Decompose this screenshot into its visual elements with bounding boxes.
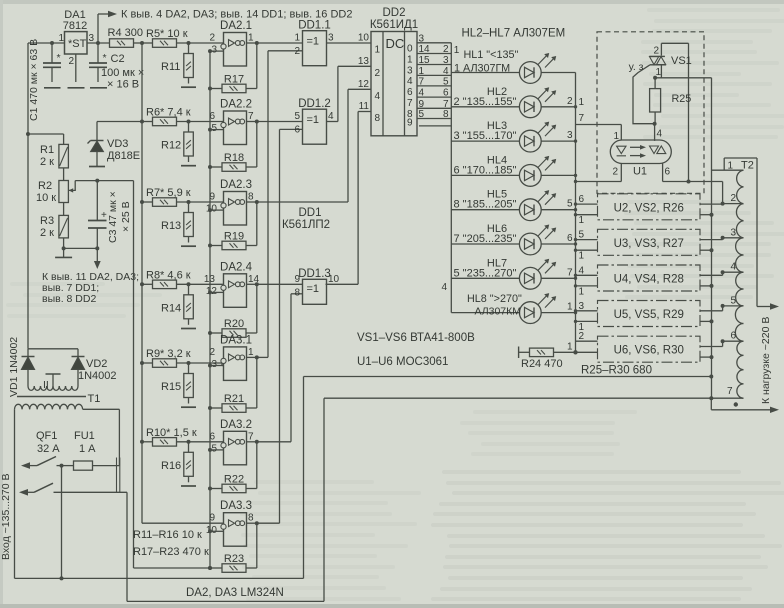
node cathode 7 <box>574 277 577 280</box>
wire DD2 pin 14 <box>417 53 451 55</box>
op-amp DA2.3 <box>224 192 247 226</box>
svg-text:5: 5 <box>211 443 217 454</box>
resistor R5 <box>142 42 153 44</box>
svg-text:DA2, DA3 LM324N: DA2, DA3 LM324N <box>186 587 284 599</box>
svg-text:1: 1 <box>454 45 460 56</box>
wire pin2 U1 <box>620 164 622 182</box>
node R25 bottom <box>653 122 657 126</box>
arrows HL4 <box>538 157 548 167</box>
node in b U5 <box>574 320 577 323</box>
svg-text:R21: R21 <box>224 393 244 405</box>
LED HL3 <box>519 130 541 152</box>
svg-text:5: 5 <box>443 76 449 87</box>
wire row HL8 <box>451 312 575 314</box>
svg-text:4: 4 <box>419 88 425 99</box>
wire DA2.1 inv input <box>210 50 224 52</box>
wire DA3.1 out <box>247 356 257 358</box>
svg-text:R25: R25 <box>672 93 692 105</box>
svg-text:R9* 3,2 к: R9* 3,2 к <box>146 348 191 360</box>
svg-text:К561ЛП2: К561ЛП2 <box>282 219 330 231</box>
optocoupler U1 <box>610 140 671 164</box>
wire feedback DA2.4 <box>256 284 258 333</box>
resistor R3 <box>59 215 69 238</box>
ground VD3 <box>89 166 105 168</box>
LED HL2 <box>519 96 541 118</box>
wire to R1 <box>28 133 64 135</box>
svg-text:DA3.2: DA3.2 <box>220 419 252 431</box>
node DA2.2 out <box>255 120 259 124</box>
svg-text:3 "155...170": 3 "155...170" <box>454 130 517 142</box>
svg-text:4: 4 <box>407 76 413 87</box>
svg-text:8 "185...205": 8 "185...205" <box>454 199 517 211</box>
ground C2 <box>90 87 107 89</box>
svg-text:3: 3 <box>443 55 449 66</box>
svg-text:× 25 В: × 25 В <box>120 201 132 232</box>
wire primary left <box>14 409 16 578</box>
svg-text:R7* 5,9 к: R7* 5,9 к <box>146 187 191 199</box>
node ladder bus row 3 <box>140 200 144 204</box>
tap 1 T2 <box>723 158 725 170</box>
LED HL8 <box>519 302 541 324</box>
node R23 left <box>208 566 212 570</box>
wire row HL7 <box>451 277 575 279</box>
svg-text:DD1.1: DD1.1 <box>298 20 331 32</box>
svg-text:8: 8 <box>248 192 254 203</box>
wire W2 neutral <box>127 600 324 602</box>
node in a U2 <box>574 202 577 205</box>
node ladder bus row 2 <box>140 120 144 124</box>
wire DA3.1 out riser <box>257 356 268 358</box>
diode VD2 <box>77 349 79 357</box>
wire DA2.4 inv input <box>210 291 224 293</box>
wire U4 out common <box>700 285 712 287</box>
svg-text:6: 6 <box>443 88 449 99</box>
wire U5 out tap <box>700 310 723 312</box>
svg-text:2: 2 <box>613 167 619 178</box>
node cathode 5 <box>574 208 577 211</box>
svg-text:3: 3 <box>419 33 425 44</box>
svg-text:2: 2 <box>294 46 300 57</box>
svg-text:7 "205...235": 7 "205...235" <box>454 233 517 245</box>
wire feedback DA2.3 <box>256 202 258 246</box>
arrow to supply pins <box>98 13 108 15</box>
wire U6 out common <box>700 356 712 358</box>
node common U5 <box>710 319 714 323</box>
wire DA2.3 out to DD2 <box>257 201 348 203</box>
diode VD1 <box>27 349 29 357</box>
LED HL1 <box>519 62 541 84</box>
resistor R15 <box>188 363 190 374</box>
resistor R22 <box>210 488 222 490</box>
arrows HL1 <box>538 55 548 65</box>
resistor R24 <box>518 347 520 359</box>
node ladder bus row 6 <box>140 440 144 444</box>
wire U3 out tap <box>700 239 723 241</box>
resistor R25 <box>654 78 656 89</box>
arrows HL8 <box>538 295 548 305</box>
node R9/R15 <box>187 361 191 365</box>
wire U2 in b <box>576 214 598 216</box>
svg-text:R1: R1 <box>40 144 54 156</box>
svg-text:1: 1 <box>248 347 254 358</box>
svg-text:1: 1 <box>59 33 65 44</box>
tap 2 T2 <box>723 203 744 205</box>
svg-text:DD1: DD1 <box>298 207 321 219</box>
resistor R13 <box>188 202 190 213</box>
svg-text:R12: R12 <box>161 140 181 152</box>
svg-text:5: 5 <box>567 199 573 210</box>
wire row HL6 <box>451 243 575 245</box>
wire DA2.1 out to DD1.1 <box>257 42 303 44</box>
node in a U3 <box>574 238 577 241</box>
svg-text:DC: DC <box>386 36 405 51</box>
svg-text:R19: R19 <box>224 231 244 243</box>
node R21 left <box>208 406 212 410</box>
svg-text:R10* 1,5 к: R10* 1,5 к <box>146 427 197 439</box>
node DA2.4 out <box>255 282 259 286</box>
svg-text:2: 2 <box>731 193 737 204</box>
svg-text:5: 5 <box>211 123 217 134</box>
wire LED bus <box>450 43 452 313</box>
svg-text:12: 12 <box>358 79 370 90</box>
block U3 <box>598 229 701 255</box>
wire riser A <box>303 377 305 579</box>
svg-text:6: 6 <box>294 125 300 136</box>
gate VS1 <box>633 65 655 124</box>
wire DA2.4 out to DD1.3 <box>257 283 303 285</box>
block U6 <box>598 336 701 362</box>
svg-text:R3: R3 <box>40 215 54 227</box>
wire U5 in b <box>576 320 598 322</box>
svg-text:С1 470 мк × 63 В: С1 470 мк × 63 В <box>28 39 40 121</box>
svg-text:1: 1 <box>728 161 734 172</box>
node DA3.3 inv <box>208 529 212 533</box>
tap 5 T2 <box>723 305 744 307</box>
resistor R16 <box>188 442 190 453</box>
svg-text:выв. 8 DD2: выв. 8 DD2 <box>42 293 96 305</box>
capacitor C3 <box>96 181 98 221</box>
node cathode 8 <box>574 311 577 314</box>
node R20 left <box>208 331 212 335</box>
svg-text:2: 2 <box>443 44 449 55</box>
wire U4 in a <box>576 274 598 276</box>
svg-text:DA2.1: DA2.1 <box>220 20 252 32</box>
svg-text:2: 2 <box>69 56 75 67</box>
svg-text:R13: R13 <box>161 220 181 232</box>
svg-text:*: * <box>57 52 61 64</box>
voltage regulator DA1 <box>65 32 88 54</box>
node R22 left <box>208 487 212 491</box>
svg-text:R11–R16 10 к: R11–R16 10 к <box>133 529 202 541</box>
wire U2 in a <box>576 203 598 205</box>
resistor R8 <box>142 283 153 285</box>
arrow common net <box>96 248 98 261</box>
svg-text:R15: R15 <box>161 381 181 393</box>
op-amp DA2.2 <box>224 111 247 145</box>
tap 4 T2 <box>723 271 744 273</box>
wire QF1 upper down <box>61 466 63 579</box>
ground R15 <box>181 406 196 408</box>
svg-text:4: 4 <box>657 129 663 140</box>
node tap 3 <box>721 236 725 240</box>
wire riser B <box>323 398 325 601</box>
winding T2 <box>737 170 744 187</box>
svg-text:=1: =1 <box>307 36 320 48</box>
svg-text:R25–R30 680: R25–R30 680 <box>581 365 652 377</box>
winding T1 secondary <box>28 386 34 390</box>
node common U4 <box>710 284 714 288</box>
svg-text:6: 6 <box>567 233 573 244</box>
svg-text:R11: R11 <box>161 61 180 73</box>
svg-text:3: 3 <box>211 359 217 370</box>
xor gate DD1.3 <box>303 279 327 304</box>
wire feedback DA2.1 <box>256 43 258 89</box>
tap 7 T2 <box>711 397 743 399</box>
node W1 QF <box>60 576 64 580</box>
svg-text:R23: R23 <box>224 553 244 565</box>
node cathode R24 <box>573 350 577 354</box>
node +12V <box>96 41 100 45</box>
ground R12 <box>181 165 196 167</box>
svg-text:VD3: VD3 <box>107 138 128 150</box>
resistor R10 <box>142 441 153 443</box>
winding T1 primary <box>15 404 23 409</box>
wire rectifier top <box>28 348 78 350</box>
resistor R6 <box>142 121 153 123</box>
wire primary right <box>83 408 120 410</box>
svg-text:5: 5 <box>419 109 425 120</box>
svg-text:11: 11 <box>359 101 370 112</box>
node DA3.3 out <box>255 521 259 525</box>
node tap 4 <box>721 270 725 274</box>
LED HL5 <box>519 199 541 221</box>
node DA2.2 inv <box>208 128 212 132</box>
svg-text:QF1: QF1 <box>36 430 57 442</box>
svg-text:К561ИД1: К561ИД1 <box>370 19 418 31</box>
svg-text:3: 3 <box>407 65 413 76</box>
wire W1 phase <box>15 577 304 579</box>
wire DA3.2 inv input <box>210 449 224 451</box>
op-amp DA3.1 <box>224 347 247 381</box>
node cathode 4 <box>574 174 577 177</box>
wire U2 out common <box>700 214 712 216</box>
svg-text:U5, VS5, R29: U5, VS5, R29 <box>614 309 684 321</box>
svg-text:1N4002: 1N4002 <box>78 370 117 382</box>
op-amp DA2.1 <box>224 33 247 67</box>
wire T2 top <box>724 157 757 159</box>
svg-text:× 16 В: × 16 В <box>107 79 139 91</box>
svg-text:3: 3 <box>731 227 737 238</box>
wire to opto pin4 <box>654 124 656 141</box>
wire U3 in b <box>576 249 598 251</box>
svg-text:2: 2 <box>654 46 660 57</box>
svg-text:R4 300: R4 300 <box>108 27 143 39</box>
wire QF1 lower down <box>126 492 128 601</box>
node cathode 3 <box>574 139 577 142</box>
ground C1 <box>44 87 61 89</box>
svg-text:U2, VS2, R26: U2, VS2, R26 <box>614 202 684 214</box>
node DA3.1 inv <box>208 364 212 368</box>
svg-text:5: 5 <box>731 295 737 306</box>
polarity dot T2 <box>734 402 738 406</box>
link QF1 poles <box>116 458 118 493</box>
ground R16 <box>181 485 196 487</box>
block U4 <box>598 265 701 291</box>
wire DD1.1 out <box>327 42 372 44</box>
svg-text:FU1: FU1 <box>74 430 95 442</box>
svg-text:9: 9 <box>407 118 413 129</box>
svg-text:DA3.3: DA3.3 <box>220 500 252 512</box>
wire feedback DA3.3 <box>256 523 258 568</box>
wire U6 in a <box>576 340 598 342</box>
triac VS1 <box>649 55 665 57</box>
svg-text:100 мк ×: 100 мк × <box>101 67 144 79</box>
node ladder bus row 1 <box>140 41 144 45</box>
svg-text:5 "235...270": 5 "235...270" <box>454 267 517 279</box>
wire DA3.3 out <box>247 522 257 524</box>
svg-text:7: 7 <box>579 113 585 124</box>
resistor R9 <box>142 362 153 364</box>
svg-text:0: 0 <box>407 44 413 55</box>
svg-text:7: 7 <box>567 267 573 278</box>
svg-text:VD2: VD2 <box>86 358 107 370</box>
wiper R2 <box>74 181 76 191</box>
node R19 left <box>208 244 212 248</box>
wire DA3.3 inv input <box>210 530 224 532</box>
svg-text:DA2.4: DA2.4 <box>220 261 253 273</box>
op-amp DA3.2 <box>224 431 247 465</box>
wire DA1 out <box>87 42 110 44</box>
node DA2.3 out <box>255 200 259 204</box>
node DA2.1 inv <box>208 49 212 53</box>
svg-text:2: 2 <box>579 331 585 342</box>
svg-text:4: 4 <box>442 282 448 293</box>
resistor R23 <box>210 567 222 569</box>
node tap 6 <box>721 339 725 343</box>
resistor R21 <box>210 407 222 409</box>
node in b U2 <box>574 213 577 216</box>
wire U5 in a <box>576 310 598 312</box>
terminal input N <box>19 489 28 496</box>
svg-text:2 к: 2 к <box>40 156 54 168</box>
node DA2.4 inv <box>208 290 212 294</box>
resistor R20 <box>210 332 222 334</box>
svg-text:4: 4 <box>579 265 585 276</box>
svg-text:2 "135...155": 2 "135...155" <box>454 96 517 108</box>
svg-text:1: 1 <box>579 286 585 297</box>
resistor R14 <box>188 284 190 295</box>
wire row HL1 <box>451 72 575 74</box>
resistor R17 <box>210 88 222 90</box>
wire DD2 pin 1 <box>417 74 451 76</box>
wire T2 output <box>756 158 758 307</box>
wire U3 in a <box>576 239 598 241</box>
LED HL4 <box>519 165 541 187</box>
node R1 branch <box>26 132 30 136</box>
node DA3.2 inv <box>208 448 212 452</box>
wire DA2.2 out to DD1.2 <box>257 121 303 123</box>
node cathode 2 <box>574 105 577 108</box>
svg-text:C2: C2 <box>111 53 125 65</box>
wire R4 to bus <box>133 42 142 44</box>
capacitor C1 <box>51 43 53 63</box>
ground R11 <box>181 86 196 88</box>
wire DA2.4 out <box>247 283 257 285</box>
wire bundle bottom <box>419 125 451 127</box>
node tap 5 <box>721 304 725 308</box>
node R3 bottom <box>62 246 66 250</box>
wire DD1.3 out <box>326 283 359 285</box>
node QF1 upper <box>60 464 64 468</box>
xor gate DD1.2 <box>303 109 327 144</box>
node common U2 <box>710 213 714 217</box>
svg-text:2: 2 <box>375 68 381 79</box>
terminal input L <box>21 462 30 469</box>
arrows HL3 <box>538 123 548 133</box>
node R10/R16 <box>187 440 191 444</box>
node in a U5 <box>574 309 577 312</box>
svg-text:U6, VS6, R30: U6, VS6, R30 <box>614 345 684 357</box>
wire R3 down <box>63 238 65 248</box>
node tap7 <box>709 396 713 400</box>
wire R2-R3 <box>63 203 65 216</box>
wire feedback DA2.2 <box>256 122 258 168</box>
wire +rect rail top <box>28 42 65 44</box>
resistor R7 <box>142 201 153 203</box>
wire DD2 pin 5 <box>417 118 451 120</box>
wire pin2 VS1 top <box>660 43 662 55</box>
wire left rail <box>27 43 29 349</box>
svg-text:U1: U1 <box>633 166 647 178</box>
wire pin1 U1 <box>620 125 622 141</box>
node A to bus <box>709 375 713 379</box>
node in b U3 <box>574 249 577 252</box>
wire VS1 to tap1 <box>655 77 711 79</box>
block U1 dashed box <box>597 32 704 194</box>
wire DD2 pin 7 <box>417 85 451 87</box>
svg-text:R8* 4,6 к: R8* 4,6 к <box>146 269 191 281</box>
svg-text:II: II <box>43 379 49 391</box>
node R18 left <box>208 165 212 169</box>
svg-text:К нагрузке ~220 В: К нагрузке ~220 В <box>760 317 772 404</box>
svg-text:4: 4 <box>375 91 381 102</box>
wire U4 out tap <box>700 274 723 276</box>
fuse FU1 <box>62 465 74 467</box>
svg-text:1: 1 <box>419 66 425 77</box>
wire DA3.2 out riser <box>257 441 291 443</box>
wire DD1.2 out <box>327 121 338 123</box>
svg-text:HL2–HL7 АЛ307ЕМ: HL2–HL7 АЛ307ЕМ <box>462 28 566 40</box>
resistor R18 <box>210 166 222 168</box>
svg-text:6: 6 <box>579 194 585 205</box>
wire row HL5 <box>451 209 575 211</box>
wire feedback DA3.2 <box>256 442 258 489</box>
svg-text:5: 5 <box>579 230 585 241</box>
svg-text:10 к: 10 к <box>36 192 56 204</box>
node pin6/VS1 <box>687 180 691 184</box>
wire row HL4 <box>451 174 575 176</box>
wire DA2.2 out <box>247 121 257 123</box>
svg-text:Вход ~135...270 В: Вход ~135...270 В <box>0 473 12 560</box>
svg-text:1: 1 <box>294 33 300 44</box>
svg-text:2: 2 <box>209 33 215 44</box>
svg-text:1: 1 <box>567 341 573 352</box>
svg-text:10: 10 <box>358 33 370 44</box>
svg-text:Д818Е: Д818Е <box>107 150 140 162</box>
wire U6 in b <box>576 351 598 353</box>
resistor R11 <box>188 43 190 54</box>
wire feedback DA3.1 <box>256 357 258 408</box>
